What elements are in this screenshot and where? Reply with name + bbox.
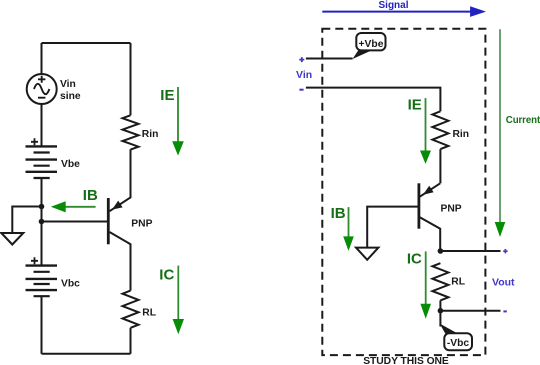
arrow IC right bbox=[420, 251, 431, 318]
wire base right to ground bbox=[367, 207, 417, 248]
resistor RL left bbox=[123, 291, 139, 328]
wire RL to lower junction bbox=[439, 300, 441, 310]
resistor RL right bbox=[432, 263, 448, 300]
wire source to Vbe bbox=[41, 104, 43, 146]
svg-text:+Vbe: +Vbe bbox=[359, 39, 384, 50]
ground left bbox=[1, 233, 23, 245]
wire base left bbox=[42, 221, 108, 223]
svg-text:PNP: PNP bbox=[131, 219, 152, 230]
arrow Signal bbox=[322, 6, 486, 17]
svg-text:Vout: Vout bbox=[492, 277, 515, 289]
svg-text:Vin: Vin bbox=[60, 79, 76, 90]
svg-text:Rin: Rin bbox=[453, 129, 470, 140]
wire Rin to emitter bbox=[439, 149, 441, 183]
callout -Vbc bbox=[440, 324, 472, 351]
node junction upper bbox=[39, 204, 45, 210]
svg-text:IC: IC bbox=[159, 266, 174, 283]
dashed study box bbox=[322, 29, 485, 355]
wire Vbc to bottom bbox=[41, 296, 43, 354]
svg-text:Rin: Rin bbox=[142, 129, 159, 140]
node plus output terminal bbox=[503, 249, 507, 253]
node minus input terminal bbox=[299, 89, 303, 91]
wire Vin plus bbox=[306, 58, 353, 60]
wire Vbe to Vbc through junctions bbox=[41, 178, 43, 266]
wire top rail to Rin bbox=[130, 43, 132, 115]
arrow Current bbox=[495, 29, 506, 237]
callout +Vbe bbox=[353, 33, 386, 59]
resistor Rin left bbox=[123, 115, 139, 149]
svg-text:RL: RL bbox=[451, 276, 465, 287]
svg-text:Vin: Vin bbox=[296, 69, 312, 81]
node junction base bbox=[39, 219, 45, 225]
arrow IC left bbox=[173, 266, 184, 335]
node collector junction plus bbox=[438, 248, 444, 254]
wire out minus bbox=[440, 310, 500, 312]
svg-text:IE: IE bbox=[160, 87, 174, 104]
wire collector out plus bbox=[440, 250, 500, 252]
battery Vbe bbox=[26, 138, 58, 178]
svg-text:-Vbc: -Vbc bbox=[447, 338, 470, 349]
resistor Rin right bbox=[432, 111, 448, 149]
svg-text:IB: IB bbox=[83, 187, 98, 204]
wire RL to bottom bbox=[130, 328, 132, 354]
svg-text:IC: IC bbox=[407, 251, 422, 268]
node minus output terminal bbox=[503, 310, 506, 312]
arrow IE right bbox=[420, 98, 431, 164]
wire Vin minus bbox=[306, 88, 441, 112]
svg-text:IE: IE bbox=[408, 97, 422, 114]
svg-text:PNP: PNP bbox=[441, 204, 462, 215]
arrow IB right bbox=[343, 207, 354, 251]
transistor Q1 PNP left bbox=[108, 149, 130, 290]
wire junction to callout bbox=[439, 311, 441, 327]
ground right bbox=[356, 248, 378, 260]
svg-text:IB: IB bbox=[331, 205, 346, 222]
wire top rail left circuit bbox=[42, 42, 131, 44]
svg-text:sine: sine bbox=[60, 91, 81, 102]
battery Vbc bbox=[26, 257, 58, 296]
svg-text:Vbc: Vbc bbox=[61, 278, 80, 289]
svg-text:Vbe: Vbe bbox=[61, 159, 80, 170]
arrow IB left bbox=[51, 201, 96, 212]
transistor Q2 PNP right bbox=[419, 183, 440, 251]
svg-text:Current: Current bbox=[506, 115, 540, 126]
svg-text:RL: RL bbox=[142, 307, 156, 318]
node lower junction minus bbox=[438, 308, 444, 314]
arrow IE left bbox=[172, 87, 184, 156]
wire bottom rail left circuit bbox=[42, 353, 131, 355]
source V1 Vin sine bbox=[27, 74, 57, 104]
node plus input terminal bbox=[299, 57, 304, 62]
svg-text:STUDY THIS ONE: STUDY THIS ONE bbox=[363, 356, 449, 365]
wire ground stub bbox=[12, 207, 41, 234]
svg-text:Signal: Signal bbox=[379, 0, 409, 11]
wire left rail upper bbox=[41, 43, 43, 75]
